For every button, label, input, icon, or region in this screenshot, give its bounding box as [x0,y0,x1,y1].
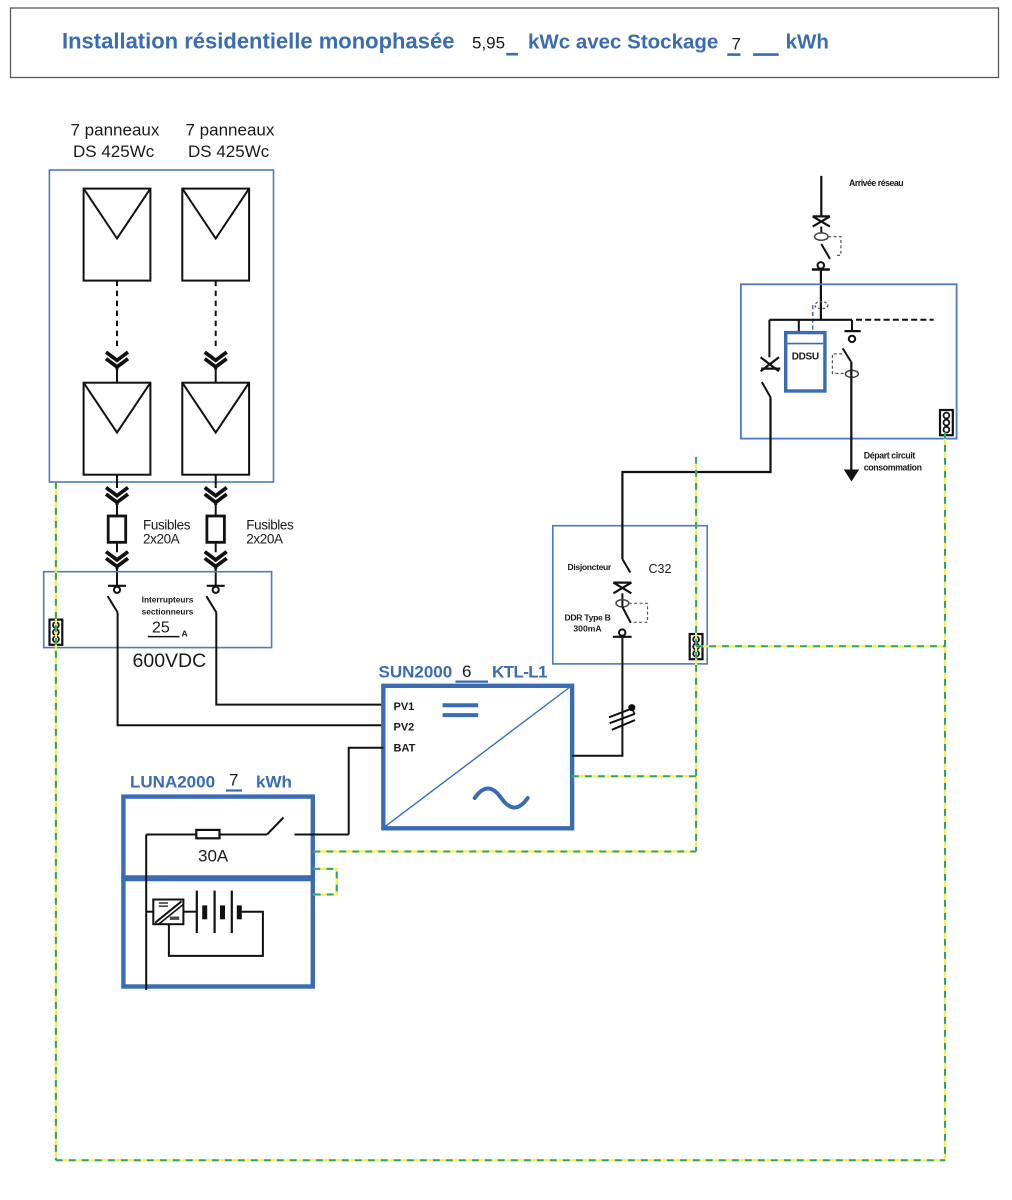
label DDR Type B 300mA [564,613,610,634]
earth line C32 horizontal yellow [696,645,945,647]
earth line mid vertical green dash [695,457,697,852]
earth line left vertical yellow [55,482,57,1160]
battery LUNA2000 box [123,797,312,987]
grid toroid ellipse [815,233,829,240]
battery box divider [121,875,315,881]
grid incoming wire [820,176,822,217]
PV breaker blade [762,382,771,397]
value 25 A [148,620,188,639]
svg-text:sectionneurs: sectionneurs [142,607,194,617]
svg-text:KTL-L1: KTL-L1 [492,663,547,682]
svg-text:2x20A: 2x20A [143,532,180,547]
earth line bottom green dash [56,1159,945,1161]
grid trip link dashed [828,237,841,256]
arrow string 1 output [106,488,128,506]
DDR contact circle [613,629,632,636]
wire string 2 out of array [215,474,217,488]
svg-text:kWc avec Stockage: kWc avec Stockage [528,31,718,54]
earth stub battery green dash [313,869,336,895]
title text kWc avec Stockage [506,53,518,56]
battery breaker wire left [146,834,196,836]
svg-text:C32: C32 [649,562,672,576]
svg-text:Arrivée réseau: Arrivée réseau [849,178,903,188]
wire battery loop [169,912,263,956]
earth line battery horizontal green dash [313,851,696,853]
label interrupteurs sectionneurs [142,595,194,617]
dashed series wire string 1 [116,281,118,350]
title box [11,8,999,78]
svg-text:7 panneaux: 7 panneaux [186,121,275,140]
conductor count slashes [609,709,635,730]
svg-text:30A: 30A [198,847,229,866]
wire to module 2 string 2 [215,368,217,383]
svg-text:2x20A: 2x20A [246,532,283,547]
svg-text:Installation résidentielle mon: Installation résidentielle monophasée [62,29,454,54]
svg-text:Fusibles: Fusibles [246,518,294,533]
PV module M1 string 2 [182,189,249,281]
earth line bottom yellow [56,1159,945,1161]
earth line left vertical green dash [55,482,57,1160]
svg-text:Fusibles: Fusibles [143,518,191,533]
wire to module 2 string 1 [116,368,118,383]
battery cells symbol [197,891,240,934]
svg-text:7: 7 [732,34,741,53]
label Départ circuit consommation [864,451,922,473]
PV module M1 string 1 [84,189,151,281]
DC/DC symbol marks [159,903,179,918]
busbar solid [769,319,852,321]
wire string 2 to fuse [215,503,217,516]
svg-text:600VDC: 600VDC [133,650,207,672]
terminal block PV earth [50,620,63,645]
wire bus to converter [146,911,153,913]
consumer trip link dashed [832,354,845,374]
svg-text:6: 6 [462,662,471,681]
DDR toroid ellipse [616,600,629,607]
battery internal bus down [145,835,147,991]
earth line battery horizontal yellow [313,850,696,852]
wire to DDR [621,593,623,607]
earth line right vertical green dash [944,432,946,1160]
svg-text:DDR Type B: DDR Type B [564,613,610,623]
consumer arrow head [844,470,859,482]
earth line right vertical yellow [944,432,946,1160]
battery title LUNA2000 7 kWh [130,771,292,792]
wire busbar to PV breaker [768,320,770,358]
PV module M2 string 2 [182,383,249,475]
svg-text:kWh: kWh [256,773,292,792]
svg-text:7: 7 [229,771,238,790]
arrow string 2 [205,352,227,370]
PV breaker fuse cross [761,357,781,371]
svg-text:DS 425Wc: DS 425Wc [73,142,155,161]
svg-text:PV2: PV2 [394,721,415,733]
fuse F2 string 2 [207,516,225,542]
earth line C32 horizontal green dash [696,645,945,647]
busbar dashed [856,319,934,321]
consumer toroid ellipse [845,370,858,377]
earth line inverter horizontal green dash [572,775,696,777]
terminal block C32 earth [690,634,703,659]
svg-text:300mA: 300mA [573,624,601,634]
inverter DC symbol [443,705,479,715]
DC/DC converter symbol [153,900,183,925]
svg-text:SUN2000: SUN2000 [379,663,453,682]
svg-text:kWh: kWh [786,31,829,54]
battery switch blade [267,818,284,835]
battery fuse 30A [196,830,219,838]
earth stub battery yellow [313,869,336,895]
wire fuse to toroid [820,227,822,233]
conductor barb [633,710,635,715]
earth line mid vertical yellow [695,457,697,852]
C32 breaker box [553,526,707,664]
inverter U1 SUN2000 box [383,686,572,829]
svg-text:A: A [182,629,188,639]
CT toroid dashed [815,302,828,309]
wire arrow to contact 2 [215,567,217,586]
DDR blade [622,607,630,623]
fuse F1 string 1 [108,516,126,542]
label string 1: 7 panneaux DS 425Wc [71,121,160,162]
breaker blade top [622,559,630,573]
PV module M2 string 1 [84,383,151,475]
inverter title SUN2000 6 KTL-L1 [379,662,548,681]
wire PV breaker to C32 [622,397,770,559]
wire inverter BAT to battery [349,748,384,835]
isolator switch 1 blade [108,596,118,612]
terminal block meter earth [940,410,953,435]
wire string 2 to inverter PV1 [216,612,383,704]
wire into meter panel [820,270,822,320]
inverter AC sine symbol [475,789,528,808]
wire converter to battery cells [183,911,195,913]
meter DDSU box [786,333,825,391]
dashed series wire string 2 [215,281,217,350]
svg-text:Départ circuit: Départ circuit [864,451,916,461]
DC isolator box [44,572,272,648]
wire string 1 to fuse [116,503,118,516]
meter panel box [741,284,957,438]
svg-text:5,95: 5,95 [472,33,505,52]
grid switch blade [821,244,830,259]
wire arrow to contact 1 [116,567,118,586]
battery breaker wire right [295,834,349,836]
arrow string 1 [106,352,128,370]
grid contact circle [812,262,830,269]
battery breaker wire middle [220,834,268,836]
consumer branch contact [844,320,860,342]
svg-text:25: 25 [152,620,170,637]
svg-text:consommation: consommation [864,463,922,473]
label string 2: 7 panneaux DS 425Wc [186,121,275,162]
wire string 1 to inverter PV2 [118,612,384,725]
wire consumer branch down [850,362,852,471]
svg-text:Interrupteurs: Interrupteurs [142,595,194,605]
consumer breaker blade [843,348,851,361]
PV array box [49,170,273,482]
wire C32 to inverter AC [572,637,622,756]
earth line inverter horizontal yellow [572,775,696,777]
label Fusibles 2x20A string 1 [143,518,191,547]
isolator switch 1 contact [108,586,126,593]
svg-text:7 panneaux: 7 panneaux [71,121,160,140]
wire busbar to meter [798,320,800,333]
svg-text:PV1: PV1 [394,701,415,713]
isolator switch 2 blade [206,596,216,612]
wire fuse 1 to switch [116,542,118,552]
arrow string 2 output [205,488,227,506]
isolator switch 2 contact [207,586,225,593]
svg-text:Disjoncteur: Disjoncteur [568,562,612,572]
arrow into switch 2 [205,552,227,570]
svg-text:LUNA2000: LUNA2000 [130,773,215,792]
svg-text:DS 425Wc: DS 425Wc [188,142,270,161]
CT link blue dashed [812,305,814,332]
conductor dot [628,704,635,711]
inverter diagonal [386,687,571,826]
breaker fuse cross symbol [613,583,631,594]
svg-text:DDSU: DDSU [792,352,819,363]
wire fuse 2 to switch [215,542,217,552]
svg-text:BAT: BAT [394,743,416,755]
wire string 1 out of array [116,474,118,488]
arrow into switch 1 [106,552,128,570]
label Fusibles 2x20A string 2 [246,518,294,547]
DDR trip link dashed [629,603,648,622]
grid fuse cross symbol [813,216,830,226]
